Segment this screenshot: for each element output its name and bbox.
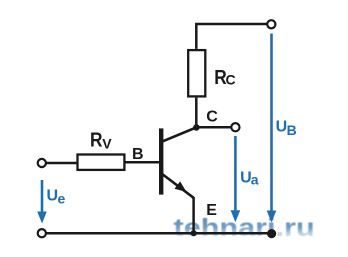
- svg-text:C: C: [206, 109, 218, 126]
- svg-text:a: a: [251, 171, 259, 187]
- svg-text:R: R: [90, 129, 103, 151]
- svg-text:e: e: [58, 191, 66, 207]
- svg-text:C: C: [226, 72, 236, 88]
- svg-text:U: U: [47, 188, 59, 205]
- svg-text:B: B: [287, 122, 297, 138]
- svg-text:V: V: [102, 136, 112, 152]
- svg-text:E: E: [206, 202, 217, 219]
- svg-text:U: U: [276, 119, 288, 136]
- svg-text:B: B: [132, 146, 144, 163]
